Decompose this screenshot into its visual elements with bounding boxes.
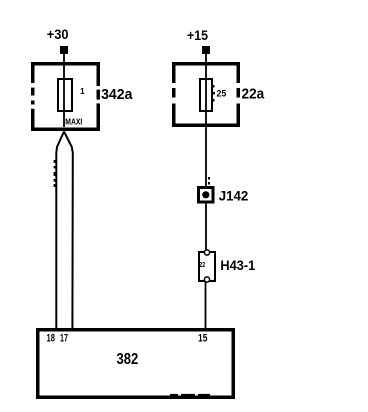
bottom border marks: [170, 394, 210, 396]
fuse element F1 (MAXI fuse): [58, 79, 72, 111]
fuse box 22a outline: [171, 64, 240, 126]
fuse element 25: [200, 79, 212, 111]
wire through fuse 22a down to J142: [205, 66, 207, 187]
wire colour tick marks: [54, 160, 56, 187]
wire arrow from fuse box 342a to module 382 (left branch): [56, 132, 64, 329]
wire colour ticks above J142: [208, 177, 210, 185]
wire H43-1 to module 382 pin 15: [205, 282, 207, 329]
svg-text:22: 22: [199, 262, 205, 269]
wire arrow from fuse box 342a to module 382 (right branch): [64, 132, 73, 329]
wire J142 to H43-1: [205, 204, 207, 253]
svg-text:17: 17: [60, 333, 68, 345]
svg-text:MAXI: MAXI: [65, 117, 82, 126]
wire from +15 terminal to fuse box 22a: [205, 54, 207, 66]
svg-text:H43-1: H43-1: [220, 257, 255, 273]
terminal square +30: [60, 46, 68, 54]
svg-text:J142: J142: [219, 188, 249, 204]
connector J142: [199, 188, 214, 203]
svg-text:382: 382: [117, 351, 139, 368]
control module 382: [38, 330, 234, 398]
bulb element H43-1: [199, 250, 215, 282]
svg-text:1: 1: [80, 86, 85, 96]
svg-text:15: 15: [198, 333, 207, 345]
svg-text:25: 25: [217, 89, 227, 100]
svg-text:18: 18: [47, 333, 56, 345]
svg-text:22a: 22a: [242, 85, 265, 102]
svg-text:+30: +30: [47, 26, 69, 42]
svg-text:+15: +15: [187, 27, 208, 43]
terminal square +15: [202, 46, 210, 54]
wire through fuse 342a: [63, 66, 65, 127]
svg-text:342a: 342a: [101, 86, 133, 103]
fuse box 342a outline: [30, 64, 100, 130]
fuse element tick marks: [213, 85, 216, 102]
wire from +30 terminal to fuse box 342a: [63, 54, 65, 66]
